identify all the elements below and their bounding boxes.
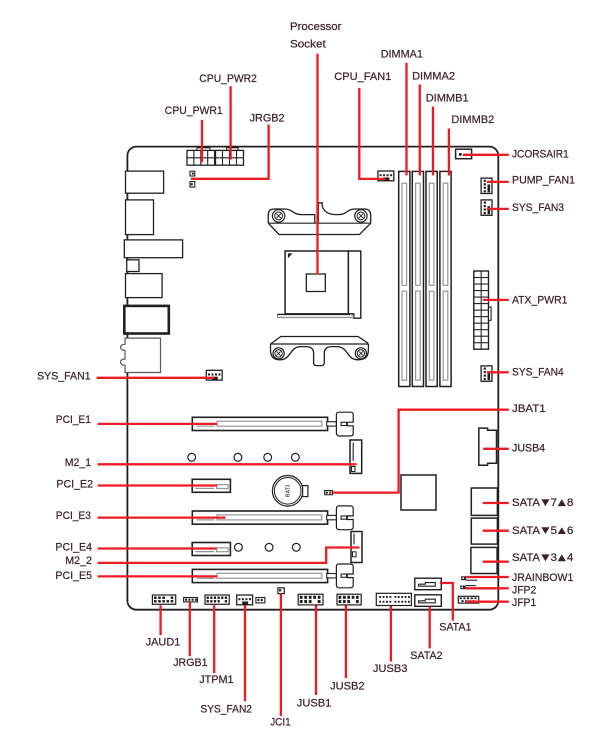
svg-text:3: 3 xyxy=(551,552,558,564)
svg-text:6: 6 xyxy=(567,525,574,537)
svg-text:PCI_E1: PCI_E1 xyxy=(56,414,91,426)
svg-text:JTPM1: JTPM1 xyxy=(199,674,233,686)
svg-text:JCORSAIR1: JCORSAIR1 xyxy=(512,148,569,160)
svg-text:7: 7 xyxy=(551,497,558,509)
svg-text:PCI_E2: PCI_E2 xyxy=(56,478,93,490)
svg-text:SATA2: SATA2 xyxy=(410,650,442,662)
svg-text:JRGB2: JRGB2 xyxy=(250,112,285,124)
svg-text:SYS_FAN3: SYS_FAN3 xyxy=(512,202,564,214)
svg-text:SYS_FAN4: SYS_FAN4 xyxy=(512,366,564,378)
svg-text:JFP1: JFP1 xyxy=(512,597,536,609)
svg-text:5: 5 xyxy=(551,525,558,537)
svg-text:ATX_PWR1: ATX_PWR1 xyxy=(512,294,567,306)
svg-text:JUSB2: JUSB2 xyxy=(330,681,365,693)
svg-text:DIMMB2: DIMMB2 xyxy=(451,114,494,126)
svg-text:JRAINBOW1: JRAINBOW1 xyxy=(512,572,573,584)
svg-text:CPU_FAN1: CPU_FAN1 xyxy=(334,71,391,83)
svg-text:JCI1: JCI1 xyxy=(270,716,290,728)
svg-text:PCI_E3: PCI_E3 xyxy=(56,510,91,522)
svg-text:SATA: SATA xyxy=(512,552,540,564)
svg-text:CPU_PWR1: CPU_PWR1 xyxy=(165,105,223,117)
svg-text:JUSB1: JUSB1 xyxy=(297,698,332,710)
svg-text:JAUD1: JAUD1 xyxy=(146,637,181,649)
svg-text:4: 4 xyxy=(567,552,574,564)
svg-text:DIMMA2: DIMMA2 xyxy=(412,71,455,83)
svg-text:JFP2: JFP2 xyxy=(512,585,536,597)
svg-text:DIMMB1: DIMMB1 xyxy=(426,93,469,105)
svg-text:JUSB3: JUSB3 xyxy=(373,663,408,675)
svg-text:JBAT1: JBAT1 xyxy=(512,403,546,415)
svg-text:PCI_E5: PCI_E5 xyxy=(55,570,92,582)
svg-text:CPU_PWR2: CPU_PWR2 xyxy=(199,73,257,85)
svg-text:PCI_E4: PCI_E4 xyxy=(55,541,92,553)
svg-text:M2_1: M2_1 xyxy=(65,457,91,469)
svg-text:BAT1: BAT1 xyxy=(286,484,292,497)
svg-text:M2_2: M2_2 xyxy=(65,555,92,567)
svg-text:SATA: SATA xyxy=(512,497,540,509)
svg-text:JUSB4: JUSB4 xyxy=(512,443,545,455)
svg-text:SATA1: SATA1 xyxy=(439,622,471,634)
svg-text:8: 8 xyxy=(567,497,574,509)
svg-text:JRGB1: JRGB1 xyxy=(173,657,207,669)
svg-text:DIMMA1: DIMMA1 xyxy=(381,48,423,60)
svg-text:SYS_FAN2: SYS_FAN2 xyxy=(200,703,252,715)
svg-text:PUMP_FAN1: PUMP_FAN1 xyxy=(512,174,575,186)
svg-text:Processor: Processor xyxy=(290,21,342,33)
svg-text:SATA: SATA xyxy=(512,525,540,537)
svg-text:SYS_FAN1: SYS_FAN1 xyxy=(37,370,91,382)
svg-text:Socket: Socket xyxy=(290,38,327,50)
